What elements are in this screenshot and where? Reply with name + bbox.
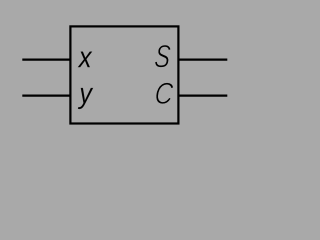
half-adder block U1: [70, 26, 178, 123]
wire output C: [178, 94, 227, 96]
wire output S: [178, 58, 227, 60]
pin label x: [78, 52, 93, 68]
wire input x: [22, 58, 70, 60]
pin label C: [155, 82, 174, 104]
wire input y: [22, 94, 70, 96]
pin label y: [78, 88, 93, 109]
pin label S: [154, 45, 171, 68]
